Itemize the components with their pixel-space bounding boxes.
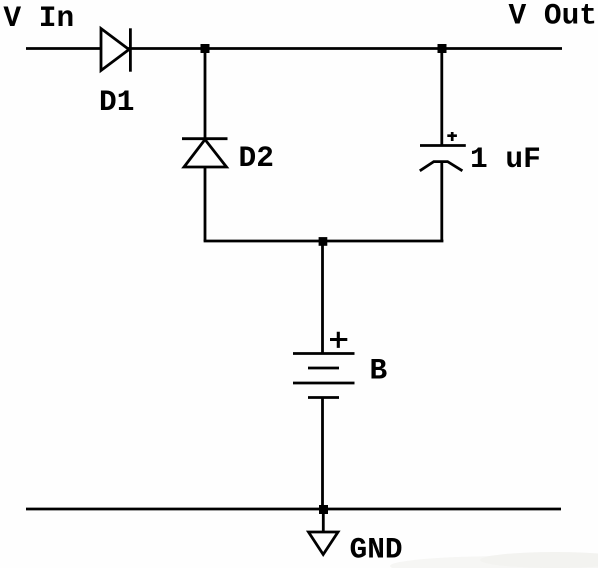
wire capacitor branch vertical [440,49,443,145]
capacitor C1 plus mark [447,132,457,141]
wire below D2 [204,167,207,241]
diode D2 [182,139,228,167]
ground symbol [309,532,339,555]
svg-text:D1: D1 [99,85,134,119]
svg-text:1 uF: 1 uF [470,142,541,176]
wire ground stub [322,509,325,532]
wire battery bottom vertical [321,398,324,510]
svg-text:B: B [370,354,388,388]
svg-text:V Out: V Out [509,0,598,33]
node junction at D2 branch [201,44,210,53]
node junction at ground [319,505,328,514]
wire top horizontal V In to V Out [26,47,562,50]
node junction battery branch [319,237,328,246]
svg-text:GND: GND [350,533,403,567]
node junction at capacitor branch [438,44,447,53]
battery B plus mark [330,332,347,348]
wire battery top vertical [321,241,324,354]
faint scan artifact bottom right [390,556,598,568]
diode D1 [101,28,130,71]
wire D2 branch vertical [204,49,207,139]
svg-text:D2: D2 [239,141,274,175]
wire middle horizontal bus [204,240,444,243]
wire below capacitor [440,163,443,242]
wire bottom horizontal ground bus [26,508,561,511]
capacitor C1 polarized [420,146,466,171]
svg-text:V In: V In [3,1,74,35]
battery B [293,354,355,398]
